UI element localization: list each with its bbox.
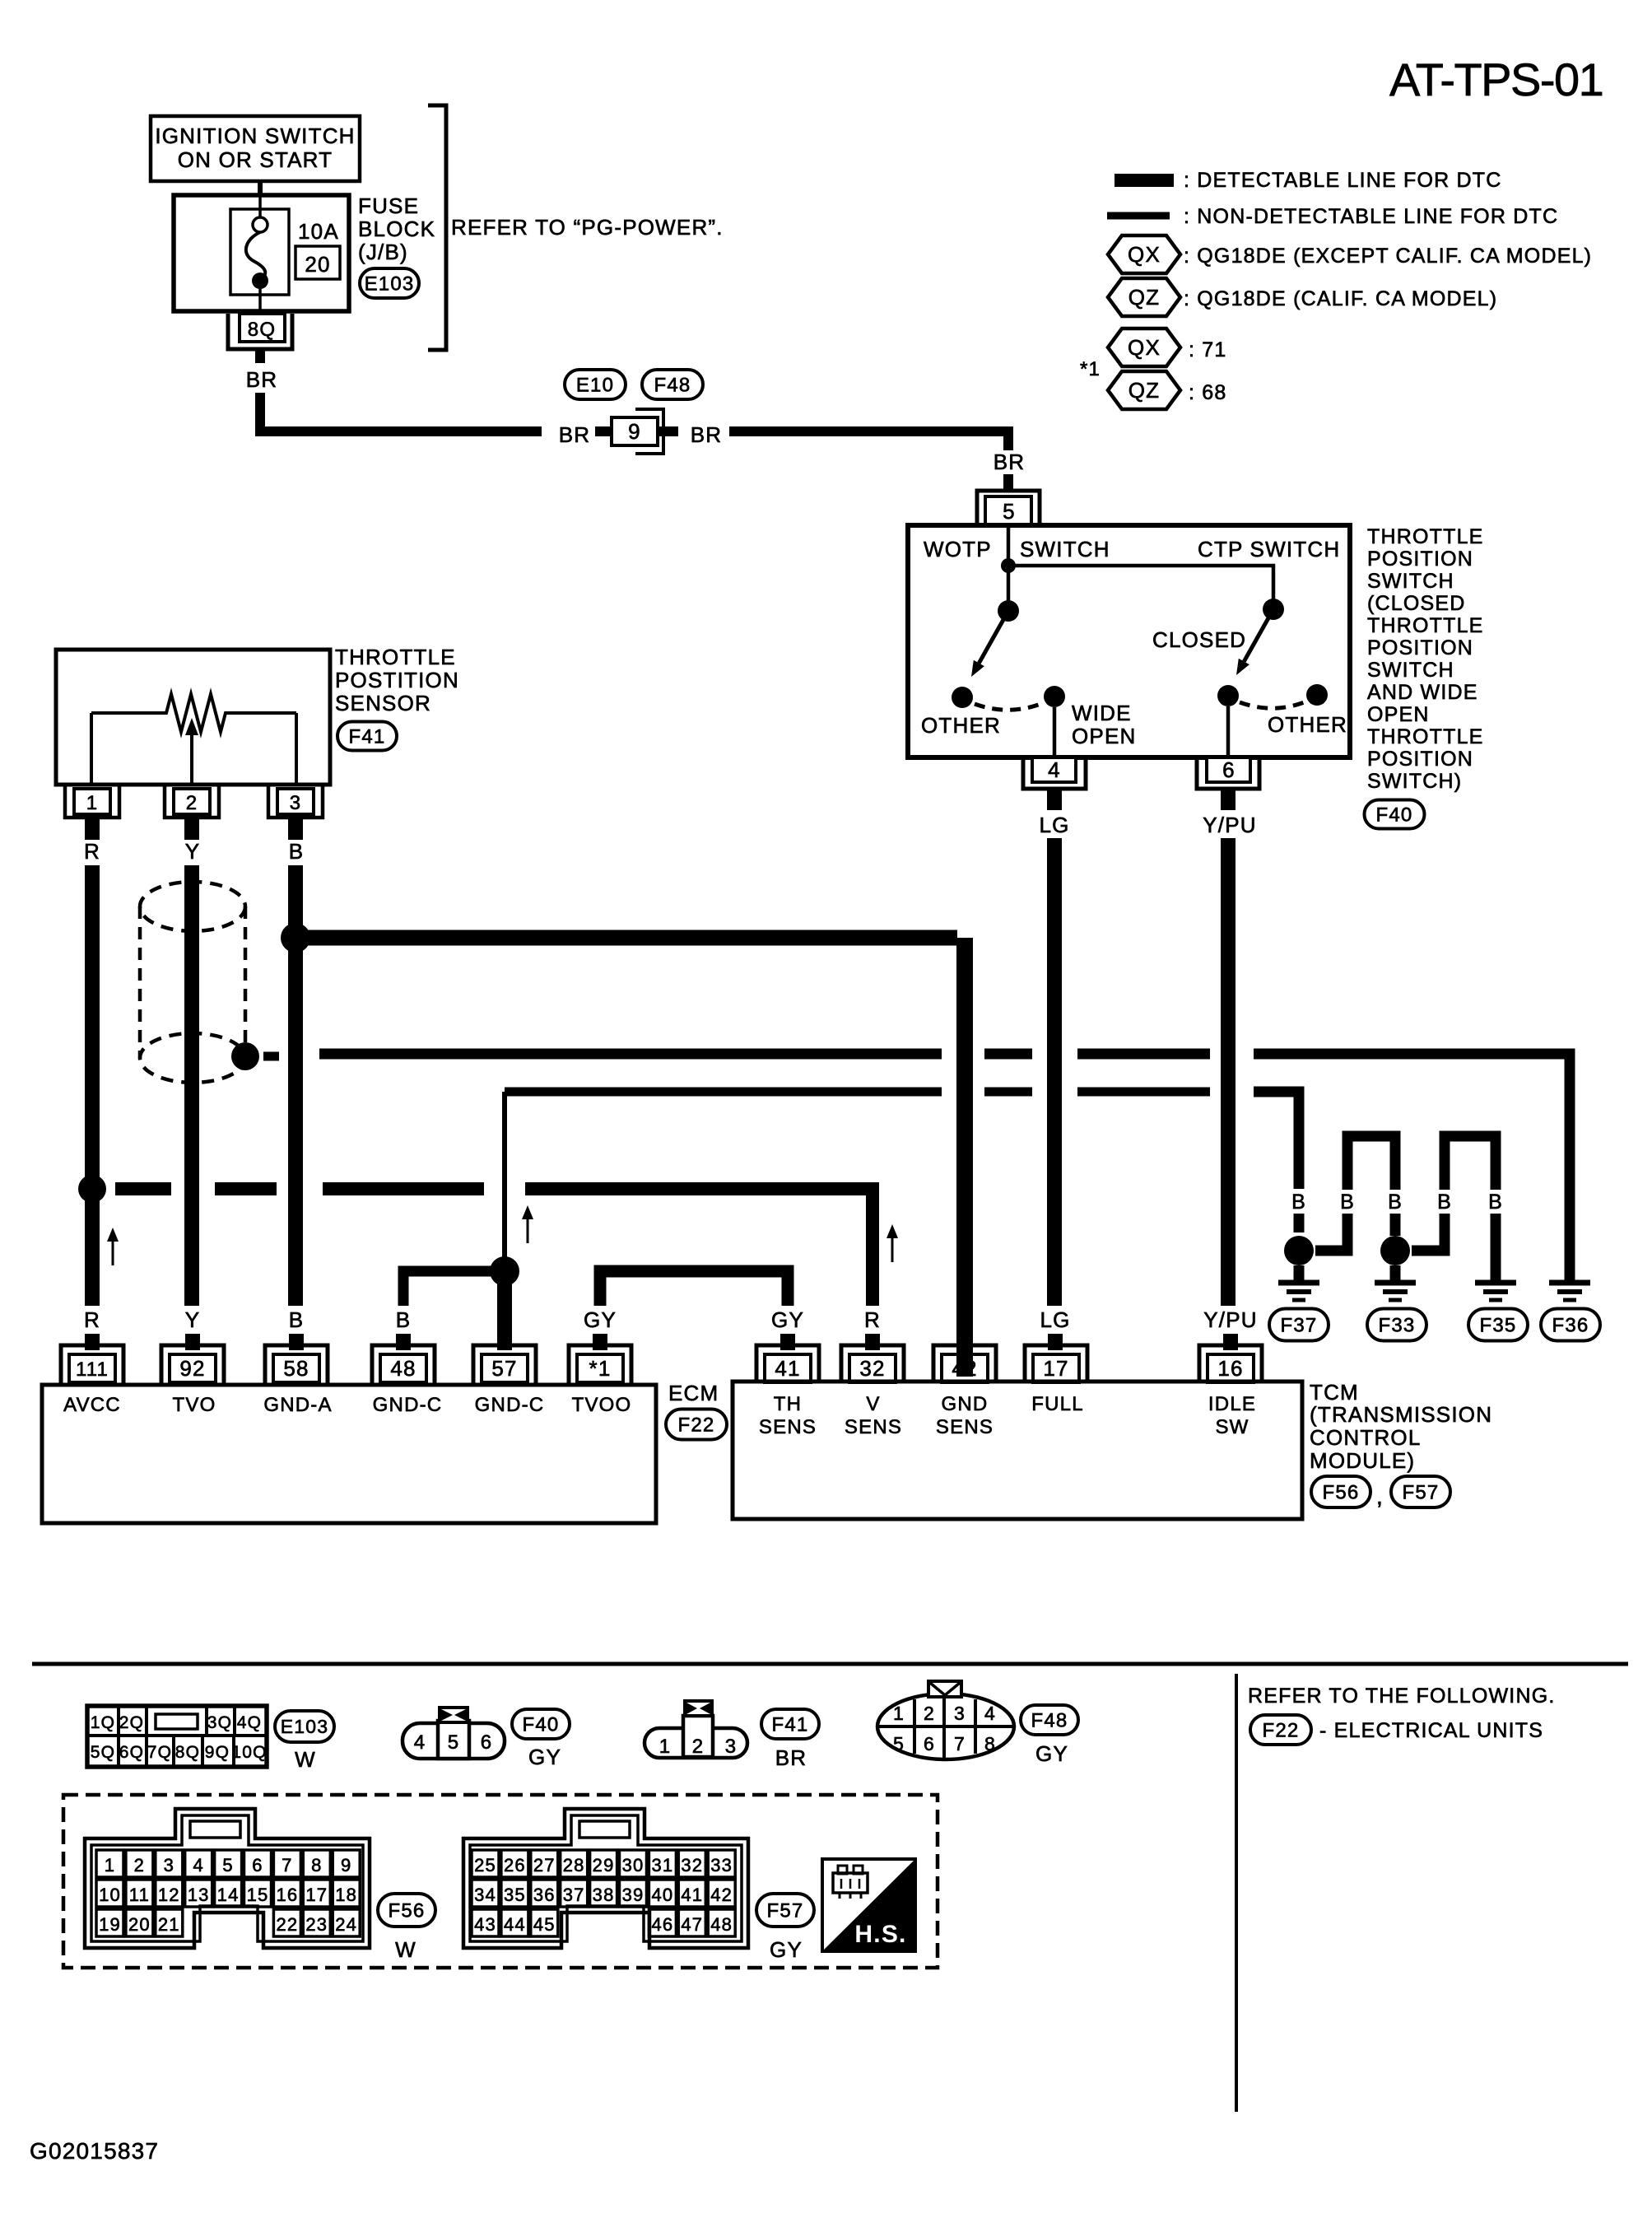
svg-text:POSITION: POSITION: [1367, 748, 1473, 771]
svg-text:F22: F22: [1263, 1719, 1300, 1741]
svg-text:SWITCH): SWITCH): [1367, 770, 1462, 793]
throttle position sensor box F41: [56, 650, 330, 785]
bracket: [428, 105, 446, 350]
svg-text:39: 39: [622, 1885, 645, 1905]
svg-text:BR: BR: [691, 422, 723, 447]
wire stub into connector 9: [595, 426, 612, 436]
label B: [1437, 1191, 1452, 1214]
svg-text:QX: QX: [1128, 335, 1161, 360]
svg-text:42: 42: [710, 1885, 733, 1905]
svg-text:9: 9: [341, 1855, 351, 1876]
wire R vertical: [85, 865, 100, 1181]
wire B to GND SENS (line A): [295, 938, 965, 1377]
label B (F37 leg): [1291, 1191, 1306, 1214]
svg-text:CTP SWITCH: CTP SWITCH: [1198, 537, 1340, 561]
pin 3: [268, 786, 323, 818]
svg-text:,: ,: [1376, 1484, 1384, 1509]
CTP switch arm: [1236, 609, 1273, 675]
svg-text:37: 37: [563, 1885, 585, 1905]
svg-text:SENS: SENS: [936, 1416, 994, 1438]
svg-text:F48: F48: [1031, 1709, 1068, 1731]
label BR: [691, 422, 723, 447]
svg-text:BR: BR: [775, 1745, 807, 1770]
ignition switch box: [151, 116, 360, 181]
svg-text:4: 4: [984, 1703, 996, 1724]
svg-text:1: 1: [893, 1703, 905, 1724]
svg-text:7Q: 7Q: [147, 1743, 172, 1762]
svg-text:ECM: ECM: [668, 1381, 719, 1405]
connector label F41: [337, 722, 397, 751]
svg-text:4: 4: [193, 1855, 203, 1876]
svg-text:41: 41: [681, 1885, 703, 1905]
connector 6: [1197, 757, 1259, 789]
svg-text:36: 36: [533, 1885, 556, 1905]
connector label E10: [565, 370, 626, 399]
label R: [84, 1307, 100, 1332]
connector face F57: [463, 1809, 748, 1948]
svg-text:17: 17: [305, 1885, 328, 1905]
svg-text:W: W: [295, 1747, 316, 1772]
svg-text:POSITION: POSITION: [1367, 636, 1473, 659]
wire R to V SENS (line D): [115, 1189, 873, 1306]
fuse 10A 20: [230, 195, 289, 314]
svg-text:WOTP: WOTP: [924, 537, 992, 561]
label ECM: [668, 1381, 719, 1405]
svg-text:E103: E103: [281, 1716, 329, 1737]
label LG: [1040, 1307, 1070, 1332]
svg-text:Y: Y: [185, 1307, 201, 1332]
label CLOSED: [1152, 627, 1246, 652]
svg-text:Y: Y: [185, 839, 201, 864]
svg-text:27: 27: [533, 1855, 556, 1876]
svg-text:R: R: [864, 1307, 881, 1332]
ground label F37: [1269, 1309, 1329, 1341]
wire stub out of connector 9: [658, 426, 678, 436]
svg-text:57: 57: [491, 1356, 517, 1381]
wire B vertical: [288, 865, 303, 1306]
svg-text:: 68: : 68: [1189, 381, 1227, 404]
svg-text:12: 12: [158, 1885, 180, 1905]
WOTP switch arm: [971, 611, 1008, 677]
svg-text:43: 43: [474, 1914, 496, 1935]
svg-text:25: 25: [474, 1855, 496, 1876]
pin 1: [65, 786, 119, 818]
wire from connector 5 to node: [1007, 525, 1011, 566]
legend QZ: [1108, 278, 1497, 316]
terminal 41: [756, 1345, 819, 1382]
svg-text:10Q: 10Q: [231, 1743, 267, 1762]
svg-text:H.S.: H.S.: [854, 1921, 906, 1948]
svg-text:B: B: [1437, 1191, 1452, 1214]
terminal wire stubs: [92, 1334, 1231, 1350]
svg-text:GY: GY: [771, 1307, 804, 1332]
svg-text:2: 2: [186, 792, 198, 814]
svg-text:F41: F41: [349, 725, 386, 748]
terminal 42: [933, 1345, 996, 1382]
label OTHER: [921, 713, 1001, 738]
svg-text:1: 1: [86, 792, 99, 814]
svg-text:5: 5: [222, 1855, 233, 1876]
svg-text:35: 35: [504, 1885, 526, 1905]
fuse number box 20: [295, 246, 340, 279]
svg-text:GND-C: GND-C: [475, 1394, 545, 1416]
wire to F37 junction: [1294, 1214, 1305, 1232]
svg-text:8: 8: [984, 1733, 996, 1754]
throttle position switch box F40: [908, 525, 1350, 757]
svg-text:R: R: [84, 839, 100, 864]
svg-text:F37: F37: [1281, 1314, 1318, 1336]
svg-text:E103: E103: [365, 273, 415, 295]
junction on wire R: [78, 1175, 106, 1203]
label BR: [994, 450, 1026, 474]
connector face F41: [645, 1701, 747, 1758]
svg-text:GND-C: GND-C: [373, 1394, 443, 1416]
svg-text:G02015837: G02015837: [30, 2138, 159, 2164]
connector 4: [1023, 757, 1086, 789]
contact OTHER (WOTP): [952, 687, 973, 708]
node junction: [1001, 558, 1016, 573]
svg-text:GY: GY: [770, 1937, 803, 1962]
terminal 92: [161, 1345, 224, 1385]
svg-text:F57: F57: [1403, 1481, 1440, 1503]
shield around Y wire: [140, 882, 245, 1083]
connector face F40: [403, 1708, 505, 1759]
svg-text:6: 6: [252, 1855, 263, 1876]
arrow on wire GND-C: [522, 1205, 533, 1243]
svg-text:6Q: 6Q: [119, 1743, 144, 1762]
wire TVOO to TH SENS bracket: [600, 1271, 788, 1306]
svg-text:OPEN: OPEN: [1072, 724, 1136, 748]
svg-text:30: 30: [622, 1855, 645, 1876]
svg-text:2: 2: [134, 1855, 145, 1876]
TCM terminal names: [759, 1393, 1256, 1438]
contact WIDE OPEN: [1044, 686, 1065, 707]
svg-text:F48: F48: [654, 374, 691, 396]
svg-text:B: B: [1488, 1191, 1503, 1214]
svg-text:44: 44: [504, 1914, 526, 1935]
label B: [289, 1307, 305, 1332]
terminal *1: [569, 1345, 631, 1385]
svg-text:B: B: [1388, 1191, 1403, 1214]
svg-text:2: 2: [692, 1736, 705, 1758]
svg-text:QZ: QZ: [1128, 378, 1161, 403]
svg-text:7: 7: [282, 1855, 292, 1876]
svg-text:F35: F35: [1480, 1314, 1517, 1336]
svg-text:OTHER: OTHER: [921, 713, 1001, 738]
svg-text:F56: F56: [1323, 1481, 1360, 1503]
svg-text:1: 1: [659, 1736, 672, 1758]
svg-text:SENS: SENS: [759, 1416, 817, 1438]
svg-text:(J/B): (J/B): [358, 240, 408, 264]
svg-text:14: 14: [217, 1885, 240, 1905]
connector face F48: [877, 1681, 1014, 1759]
separator line: [32, 1662, 1628, 1666]
svg-text:AND WIDE: AND WIDE: [1367, 681, 1478, 704]
svg-text:Y/PU: Y/PU: [1203, 813, 1256, 837]
svg-text:22: 22: [276, 1914, 298, 1935]
svg-text:3Q: 3Q: [207, 1713, 232, 1732]
svg-text:POSTITION: POSTITION: [335, 668, 459, 692]
svg-text:92: 92: [179, 1356, 205, 1381]
svg-text:E10: E10: [576, 374, 614, 396]
svg-text:THROTTLE: THROTTLE: [1367, 725, 1484, 748]
label WIDE OPEN: [1072, 701, 1136, 748]
svg-text:SWITCH: SWITCH: [1367, 659, 1454, 682]
svg-text:20: 20: [305, 252, 330, 277]
connector label F22: [666, 1410, 727, 1440]
svg-text:40: 40: [651, 1885, 673, 1905]
document number G02015837: [30, 2138, 159, 2164]
label BR: [246, 367, 278, 392]
svg-text:FULL: FULL: [1031, 1393, 1084, 1415]
svg-text:31: 31: [651, 1855, 673, 1876]
wire GND-C to F37 ground (line C): [505, 1092, 1299, 1189]
svg-text:3: 3: [164, 1855, 175, 1876]
svg-text:33: 33: [710, 1855, 733, 1876]
svg-text:(TRANSMISSION: (TRANSMISSION: [1310, 1402, 1492, 1427]
svg-text:10: 10: [99, 1885, 121, 1905]
svg-text:26: 26: [504, 1855, 526, 1876]
connector 5: [977, 491, 1040, 525]
svg-text:18: 18: [335, 1885, 357, 1905]
svg-text:F33: F33: [1379, 1314, 1416, 1336]
svg-text:B: B: [1340, 1191, 1355, 1214]
ground jumper 1: [1315, 1136, 1395, 1251]
svg-text:SENS: SENS: [845, 1416, 902, 1438]
svg-text:W: W: [395, 1937, 416, 1962]
label CTP SWITCH: [1198, 537, 1340, 561]
svg-text:Y/PU: Y/PU: [1203, 1307, 1257, 1332]
fuse block (J/B) box: [174, 195, 349, 311]
connector label F40: [1365, 800, 1425, 829]
svg-text:5: 5: [448, 1731, 460, 1754]
svg-text:48: 48: [710, 1914, 733, 1935]
junction on wire B: [281, 923, 310, 953]
svg-text:17: 17: [1043, 1356, 1068, 1381]
CTP switch pivot: [1263, 599, 1284, 620]
arrow on wire V SENS: [886, 1224, 898, 1262]
svg-text:POSITION: POSITION: [1367, 548, 1473, 571]
svg-text:QX: QX: [1128, 242, 1161, 267]
svg-text:CONTROL: CONTROL: [1310, 1425, 1422, 1450]
wire GND-C thin vertical: [502, 1092, 507, 1257]
svg-text:24: 24: [335, 1914, 357, 1935]
terminal 57: [473, 1345, 536, 1385]
label FUSE BLOCK (J/B): [358, 193, 435, 264]
svg-text:9Q: 9Q: [205, 1743, 230, 1762]
svg-text:48: 48: [390, 1356, 416, 1381]
legend QZ 68: [1108, 371, 1227, 409]
terminal 58: [265, 1345, 328, 1385]
contact OTHER (CTP): [1306, 684, 1328, 706]
svg-text:F22: F22: [678, 1414, 715, 1436]
svg-text:9: 9: [628, 419, 641, 444]
svg-text:OPEN: OPEN: [1367, 703, 1430, 726]
svg-text:6: 6: [924, 1733, 935, 1754]
svg-text:B: B: [289, 839, 305, 864]
label OTHER: [1268, 712, 1347, 737]
svg-text:8Q: 8Q: [248, 319, 276, 341]
svg-text:(CLOSED: (CLOSED: [1367, 592, 1466, 615]
connector label F56: [378, 1894, 435, 1962]
svg-text:4: 4: [1048, 757, 1061, 782]
svg-text:BLOCK: BLOCK: [358, 217, 435, 241]
label WOTP SWITCH: [924, 537, 1110, 561]
wire Y/PU vertical: [1203, 789, 1256, 1306]
svg-text:5: 5: [1003, 499, 1016, 524]
ground F37: [1278, 1265, 1319, 1300]
svg-text:16: 16: [276, 1885, 298, 1905]
wire BR down and right: [260, 393, 542, 431]
svg-text:THROTTLE: THROTTLE: [335, 645, 456, 669]
svg-text:FUSE: FUSE: [358, 193, 419, 218]
svg-text:WIDE: WIDE: [1072, 701, 1132, 725]
svg-text:2: 2: [924, 1703, 935, 1724]
contact CLOSED (CTP): [1217, 685, 1239, 706]
ground label F35: [1468, 1309, 1528, 1341]
joint connector 9: [612, 409, 663, 454]
svg-text:CLOSED: CLOSED: [1152, 627, 1246, 652]
svg-text:11: 11: [129, 1885, 150, 1905]
svg-text:R: R: [84, 1307, 100, 1332]
svg-text:SWITCH: SWITCH: [1367, 570, 1454, 593]
svg-text:13: 13: [188, 1885, 210, 1905]
wire BR to throttle position switch: [729, 431, 1008, 450]
svg-text:: QG18DE (EXCEPT CALIF. CA MOD: : QG18DE (EXCEPT CALIF. CA MODEL): [1184, 245, 1592, 268]
wire Y vertical: [184, 865, 199, 1306]
value label 10A: [298, 219, 339, 244]
svg-text:15: 15: [247, 1885, 269, 1905]
svg-text:4Q: 4Q: [237, 1713, 262, 1732]
svg-text:B: B: [289, 1307, 305, 1332]
label R: [84, 839, 100, 864]
svg-text:3: 3: [725, 1736, 738, 1758]
wire Y stub: [184, 818, 199, 840]
legend detectable line: [1115, 169, 1502, 192]
wire CLOSED contact to connector 6: [1226, 706, 1231, 757]
pin 2: [165, 786, 219, 818]
connector label F22 electrical units: [1250, 1715, 1543, 1745]
svg-text:F36: F36: [1552, 1314, 1589, 1336]
svg-text:LG: LG: [1040, 1307, 1070, 1332]
svg-text:OTHER: OTHER: [1268, 712, 1347, 737]
potentiometer resistor: [91, 694, 296, 785]
terminal 111: [61, 1345, 123, 1385]
terminal 16: [1199, 1345, 1262, 1382]
svg-text:19: 19: [99, 1914, 121, 1935]
svg-text:GY: GY: [528, 1745, 561, 1769]
svg-text:6: 6: [481, 1731, 493, 1754]
svg-text:2Q: 2Q: [119, 1713, 144, 1732]
terminal 48: [372, 1345, 435, 1385]
label B: [1488, 1191, 1503, 1214]
label Y/PU: [1203, 1307, 1257, 1332]
svg-text:34: 34: [474, 1885, 496, 1905]
svg-text:ON OR START: ON OR START: [178, 147, 333, 172]
dashed throw arc (CTP): [1240, 701, 1306, 708]
wire node to CTP switch: [1008, 566, 1273, 609]
svg-text:20: 20: [128, 1914, 151, 1935]
svg-text:TVOO: TVOO: [572, 1394, 632, 1416]
svg-text:*1: *1: [589, 1356, 612, 1381]
label B: [1388, 1191, 1403, 1214]
svg-text:AT-TPS-01: AT-TPS-01: [1389, 54, 1603, 105]
wire shield to F36 ground (line B): [319, 1054, 1570, 1284]
svg-text:5: 5: [893, 1733, 905, 1754]
svg-text:28: 28: [563, 1855, 585, 1876]
label B: [289, 839, 305, 864]
arrow on wire R: [107, 1228, 119, 1265]
svg-text:41: 41: [775, 1356, 800, 1381]
label TCM (TRANSMISSION CONTROL MODULE): [1310, 1380, 1492, 1473]
svg-text:32: 32: [681, 1855, 703, 1876]
svg-text:23: 23: [305, 1914, 328, 1935]
terminal 32: [841, 1345, 904, 1382]
svg-text:BR: BR: [246, 367, 278, 392]
WOTP switch pivot: [998, 566, 1019, 622]
svg-text:- ELECTRICAL UNITS: - ELECTRICAL UNITS: [1319, 1719, 1543, 1742]
svg-text:TH: TH: [774, 1393, 802, 1415]
svg-text:3: 3: [290, 792, 302, 814]
svg-text:TVO: TVO: [173, 1394, 216, 1416]
label GY: [584, 1307, 617, 1332]
label Y: [185, 839, 201, 864]
svg-text:TCM: TCM: [1310, 1380, 1359, 1405]
potentiometer wiper arrow: [185, 718, 198, 785]
label THROTTLE POSTITION SENSOR: [335, 645, 459, 715]
svg-text:SW: SW: [1215, 1416, 1249, 1438]
wire R lower vertical: [85, 1195, 100, 1306]
svg-text:111: 111: [76, 1358, 109, 1381]
junction GND-C: [490, 1256, 519, 1286]
label R: [864, 1307, 881, 1332]
connector label F57: [756, 1894, 814, 1962]
svg-text:32: 32: [859, 1356, 885, 1381]
ground jumper 2: [1412, 1136, 1496, 1284]
svg-text:V: V: [866, 1393, 880, 1415]
svg-text:45: 45: [533, 1914, 556, 1935]
connector label F56: [1311, 1476, 1370, 1507]
svg-text:29: 29: [593, 1855, 615, 1876]
svg-text:4: 4: [414, 1731, 426, 1754]
label GY: [771, 1307, 804, 1332]
svg-text:*1: *1: [1080, 358, 1101, 380]
svg-text:5Q: 5Q: [91, 1743, 115, 1762]
svg-text:F57: F57: [767, 1899, 804, 1922]
svg-text:QZ: QZ: [1128, 285, 1161, 310]
label BR: [559, 422, 591, 447]
svg-text:: QG18DE (CALIF. CA MODEL): : QG18DE (CALIF. CA MODEL): [1184, 287, 1497, 310]
svg-text:F41: F41: [772, 1713, 809, 1736]
svg-text:GY: GY: [584, 1307, 617, 1332]
ground F35: [1475, 1283, 1516, 1300]
svg-text:46: 46: [651, 1914, 673, 1935]
ground F36: [1549, 1283, 1590, 1300]
connector 8Q: [228, 314, 292, 349]
svg-text:16: 16: [1217, 1356, 1243, 1381]
junction at F37: [1284, 1236, 1314, 1265]
svg-text:: 71: : 71: [1189, 338, 1227, 361]
svg-text:THROTTLE: THROTTLE: [1367, 614, 1484, 637]
svg-text:GND: GND: [942, 1393, 989, 1415]
legend non-detectable line: [1107, 205, 1558, 228]
wire BR from 8Q: [255, 349, 265, 363]
note REFER TO PG-POWER: [451, 215, 724, 240]
svg-text:8Q: 8Q: [175, 1743, 200, 1762]
svg-text:10A: 10A: [298, 219, 339, 244]
connector label F41: [761, 1709, 819, 1770]
svg-text:F56: F56: [389, 1899, 426, 1922]
